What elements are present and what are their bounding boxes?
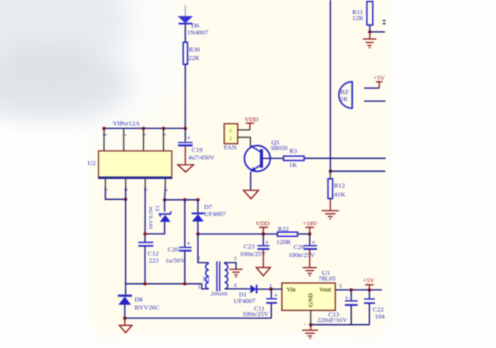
label R3 xyxy=(289,148,297,155)
svg-text:1N4007: 1N4007 xyxy=(187,30,209,37)
svg-text:1u/50V: 1u/50V xyxy=(165,258,185,265)
pin number 3 xyxy=(142,189,147,192)
ground U3 (bars) xyxy=(302,325,318,339)
junction U3 gnd node xyxy=(309,323,312,326)
value 22R xyxy=(188,55,200,62)
pin 6 stub xyxy=(143,128,145,151)
svg-text:FAN: FAN xyxy=(224,145,237,152)
wire pin2 down to D8 xyxy=(125,187,127,295)
wire transformer pin4 to D1 xyxy=(225,288,251,290)
svg-text:104: 104 xyxy=(375,313,386,320)
capacitor C11 xyxy=(266,292,278,303)
label C22 xyxy=(373,307,384,314)
svg-text:41K: 41K xyxy=(334,191,346,198)
wire C13 to gnd rail xyxy=(350,305,352,324)
value 78L05 xyxy=(319,276,337,283)
svg-text:12K: 12K xyxy=(352,15,364,22)
capacitor C19 xyxy=(178,134,193,145)
svg-text:2: 2 xyxy=(197,256,200,262)
value 100n/25V (C28) xyxy=(289,252,316,259)
svg-text:R30: R30 xyxy=(189,46,201,53)
wire faint stub above D6 xyxy=(184,5,186,16)
wire R11 node right xyxy=(370,31,385,33)
capacitor C22 xyxy=(364,299,375,303)
ground transformer pin3 (bars) xyxy=(229,269,242,277)
svg-text:D6: D6 xyxy=(191,23,200,30)
IC U2 body xyxy=(99,151,172,178)
pin 5 stub xyxy=(163,128,165,151)
capacitor C23 xyxy=(257,238,269,249)
label Q5 xyxy=(271,140,280,147)
junction pin1-pin2 xyxy=(124,198,127,201)
svg-text:VIPer12A: VIPer12A xyxy=(113,121,140,128)
svg-text:22R: 22R xyxy=(188,55,200,62)
pin number 1 xyxy=(102,189,107,192)
value 223 xyxy=(149,258,160,265)
ground R12 (bars) xyxy=(322,199,339,220)
ground C28 (bars) xyxy=(303,249,317,276)
IC U3 body xyxy=(282,283,335,310)
value 1u/50V xyxy=(165,258,185,265)
power +5V (U3) xyxy=(365,285,374,290)
svg-text:C23: C23 xyxy=(244,244,256,251)
wire C12 to bottom bus xyxy=(144,246,146,284)
svg-text:78L05: 78L05 xyxy=(319,276,337,283)
svg-text:+: + xyxy=(303,322,306,327)
label R11 xyxy=(352,9,363,16)
value 41K xyxy=(334,191,346,198)
value 18V 0.5W (rotated) xyxy=(149,206,155,230)
value UF4007 xyxy=(204,211,226,218)
label U3 xyxy=(322,270,331,277)
svg-text:+5V: +5V xyxy=(363,278,375,285)
wire U3 Vout xyxy=(335,289,382,291)
junction R12 node xyxy=(329,170,332,173)
wire pin4 to bus xyxy=(164,187,167,200)
junction pin4 node xyxy=(163,198,166,201)
pin 8 stub xyxy=(103,128,105,151)
pin number 2 FAN xyxy=(229,128,232,134)
svg-text:+: + xyxy=(187,240,191,248)
pin number 2 xyxy=(123,189,128,192)
wire D1 to U3 Vin xyxy=(257,288,282,290)
value S8050 xyxy=(271,145,289,152)
wire ground rail left xyxy=(125,317,272,319)
label Vin xyxy=(287,288,297,294)
svg-text:R22: R22 xyxy=(278,226,289,233)
svg-text:+: + xyxy=(187,134,191,142)
zener Z1 xyxy=(160,211,172,222)
value 1N4007 xyxy=(187,30,209,37)
junction C12 bottom xyxy=(143,282,146,285)
svg-text:100n/25V: 100n/25V xyxy=(240,251,267,258)
value 1K (BZ) xyxy=(340,96,348,103)
label Vout xyxy=(319,288,331,294)
power +5V (buzzer) xyxy=(376,82,383,88)
svg-text:D8: D8 xyxy=(135,297,144,304)
pin 2 stub U2 xyxy=(125,179,127,188)
wire long vertical xyxy=(329,0,331,171)
wire buzzer top pin xyxy=(364,87,379,89)
label GND (rotated) xyxy=(308,293,315,308)
pin 4 stub U2 xyxy=(164,179,166,188)
transformer L1 xyxy=(206,261,228,291)
svg-text:C12: C12 xyxy=(148,251,159,258)
ground R11 (bars) xyxy=(363,32,377,48)
resistor R12 xyxy=(328,179,333,199)
capacitor C13 xyxy=(345,294,358,305)
pin number 1 transformer xyxy=(198,285,201,291)
wire node bus y200 xyxy=(165,199,198,201)
wire R11 bottom xyxy=(369,25,371,32)
wire D6 to R30 xyxy=(184,24,186,42)
svg-text:4u7/450V: 4u7/450V xyxy=(188,154,215,161)
svg-text:Vout: Vout xyxy=(319,288,331,294)
ground D8 (triangle) xyxy=(119,318,132,333)
wire C22 to gnd rail xyxy=(368,303,370,324)
value 100n/25V (C11) xyxy=(242,311,269,318)
label Z1 (rotated) xyxy=(155,205,161,211)
capacitor C12 xyxy=(138,242,153,246)
label C23 xyxy=(244,244,256,251)
value 104 xyxy=(375,313,386,320)
svg-text:C19: C19 xyxy=(192,147,204,154)
svg-text:R3: R3 xyxy=(289,148,297,155)
svg-text:4: 4 xyxy=(234,283,237,289)
pin 1 stub FAN to Q5 collector xyxy=(238,137,251,146)
tiny mark near gnd node xyxy=(303,322,306,327)
label D6 xyxy=(191,23,200,30)
capacitor C28 xyxy=(304,238,317,249)
power +18V xyxy=(305,227,314,234)
pin 2 stub FAN xyxy=(238,129,250,131)
wire Q5 emitter down xyxy=(250,172,252,190)
label R22 xyxy=(278,226,289,233)
junction pin3-zener xyxy=(143,232,146,235)
label C19 xyxy=(192,147,204,154)
junction U2 pin6 xyxy=(142,127,145,130)
junction U2 pin5 xyxy=(162,127,165,130)
diode D1 xyxy=(250,285,256,294)
junction R11 node xyxy=(368,30,371,33)
wire pin1 to pin2 join xyxy=(105,187,125,199)
svg-text:100n/25V: 100n/25V xyxy=(289,252,316,259)
junction U2 pin8 xyxy=(102,127,105,130)
wire D7 stem xyxy=(197,200,199,213)
pin number 1 FAN xyxy=(229,136,232,142)
wire C11 stem xyxy=(270,289,272,298)
label C12 xyxy=(148,251,159,258)
wire D7 node down to transformer pin2 xyxy=(198,234,209,263)
wire gnd rail right xyxy=(311,324,370,326)
svg-text:BYV26C: BYV26C xyxy=(135,304,161,311)
value 220uF/16V xyxy=(317,317,347,324)
svg-text:GND: GND xyxy=(308,293,315,308)
junction VDD tap xyxy=(262,232,265,235)
svg-text:1: 1 xyxy=(198,285,201,291)
svg-text:VDD: VDD xyxy=(245,116,259,123)
wire zener top xyxy=(164,200,166,212)
svg-text:3: 3 xyxy=(234,256,237,262)
svg-text:R12: R12 xyxy=(334,183,345,190)
ground C19 (triangle) xyxy=(178,146,194,172)
power VDD (mid) xyxy=(259,227,268,234)
value 200x66 xyxy=(211,292,228,298)
value 12K xyxy=(352,15,364,22)
junction C22 tap xyxy=(368,288,371,291)
buzzer BZ xyxy=(339,82,352,109)
node stub marks (cut component) xyxy=(383,20,386,25)
wire zener bottom xyxy=(145,222,165,234)
wire Q5 base to R3 xyxy=(263,157,284,159)
pin number 6 xyxy=(141,134,146,137)
label C13 xyxy=(328,311,340,318)
junction C20 tap xyxy=(183,198,186,201)
wire pin3 down xyxy=(144,187,146,242)
svg-text:Z1: Z1 xyxy=(155,205,161,211)
pin number 1 U3 xyxy=(269,283,272,289)
wire R12 top stub xyxy=(329,171,331,179)
wire transformer pin3 xyxy=(225,263,236,269)
svg-text:2: 2 xyxy=(229,128,232,134)
pin number 4 transformer xyxy=(234,283,237,289)
pin 2 stub U3 gnd xyxy=(310,310,312,324)
value 4u7/450V xyxy=(188,154,215,161)
label D1 xyxy=(239,292,247,299)
junction C19 tap xyxy=(184,127,187,130)
pin 1 stub U2 xyxy=(104,179,106,188)
pin 3 stub U2 xyxy=(144,179,146,188)
pin number 4 xyxy=(162,189,167,192)
svg-text:18V 0.5W: 18V 0.5W xyxy=(149,206,155,230)
wire R22 to +18V node xyxy=(298,233,310,235)
wire C13 stem xyxy=(350,290,352,301)
pin number 7 xyxy=(121,134,126,137)
svg-text:1: 1 xyxy=(269,283,272,289)
ground Q5 (triangle) xyxy=(244,190,259,199)
wire C28 stem xyxy=(309,234,311,245)
net label +5V (buzzer) xyxy=(373,75,385,82)
label VIPer12A xyxy=(113,121,140,128)
ground C23 (triangle) xyxy=(256,249,270,275)
value 120R xyxy=(276,239,291,246)
label D8 xyxy=(135,297,144,304)
junction C11 tap xyxy=(269,287,272,290)
pin number 3 transformer xyxy=(234,256,237,262)
junction D7 top xyxy=(196,198,199,201)
pin 7 stub xyxy=(123,128,125,151)
svg-text:UF4007: UF4007 xyxy=(234,298,256,305)
svg-text:L1: L1 xyxy=(203,276,210,283)
label D7 xyxy=(204,204,213,211)
wire VDD rail y234 xyxy=(198,233,277,235)
resistor R30 xyxy=(183,42,187,64)
svg-text:+18V: +18V xyxy=(303,221,318,228)
net label +18V xyxy=(303,221,318,228)
label U2 xyxy=(88,160,96,167)
label L1 xyxy=(203,276,210,283)
label FAN xyxy=(224,145,237,152)
wire C11 to rail xyxy=(270,303,272,318)
svg-text:S8050: S8050 xyxy=(271,145,289,152)
transistor Q5 xyxy=(244,146,270,172)
svg-text:1: 1 xyxy=(229,136,232,142)
label BZ xyxy=(340,89,348,96)
resistor R22 xyxy=(277,232,297,236)
svg-text:120R: 120R xyxy=(276,239,291,246)
pin number 5 xyxy=(161,134,166,137)
junction D7 anode node xyxy=(196,232,199,235)
wire C23 stem xyxy=(262,234,264,245)
label C20 xyxy=(168,247,180,254)
diode D6 xyxy=(178,16,193,24)
wire R30 to VIPer bus xyxy=(184,64,186,128)
resistor R3 xyxy=(284,156,305,160)
svg-text:1K: 1K xyxy=(289,162,297,169)
net label VDD (mid) xyxy=(256,221,270,228)
svg-text:UF4007: UF4007 xyxy=(204,211,226,218)
diode D7 xyxy=(192,213,205,221)
pin number 3 U3 xyxy=(339,284,342,290)
wire R12 node right xyxy=(330,170,385,172)
wire C22 stem xyxy=(368,290,370,299)
wire C20 stem xyxy=(184,200,186,247)
wire D8 to rail xyxy=(124,305,126,318)
net label +5V (U3) xyxy=(363,278,375,285)
wire buzzer bottom pin xyxy=(364,100,385,102)
resistor R11 xyxy=(367,2,373,26)
svg-text:1K: 1K xyxy=(340,96,348,103)
label C11 xyxy=(254,305,265,312)
junction C13 tap xyxy=(350,288,353,291)
junction C20 bottom xyxy=(183,282,186,285)
power VDD (FAN) xyxy=(246,123,254,130)
junction +18V node xyxy=(308,232,311,235)
diode D8 xyxy=(118,296,132,305)
wire R3 to right edge xyxy=(304,157,386,159)
svg-text:U2: U2 xyxy=(88,160,96,167)
label R30 xyxy=(189,46,201,53)
label R12 xyxy=(334,183,345,190)
wire C19 stem xyxy=(184,128,186,142)
svg-text:100n/25V: 100n/25V xyxy=(242,311,269,318)
connector FAN xyxy=(224,124,238,144)
wire U2 top pin bus xyxy=(104,127,185,129)
svg-text:+5V: +5V xyxy=(373,75,385,82)
capacitor C20 xyxy=(179,240,192,251)
svg-text:220uF/16V: 220uF/16V xyxy=(317,317,347,324)
pin number 2 transformer xyxy=(197,256,200,262)
wire D7 to node xyxy=(197,222,199,234)
svg-text:C20: C20 xyxy=(168,247,180,254)
label C28 xyxy=(294,244,306,251)
net label VDD (FAN) xyxy=(245,116,259,123)
junction D8 rail xyxy=(123,316,126,319)
wire C20 to bottom bus xyxy=(184,251,186,284)
svg-text:3: 3 xyxy=(339,284,342,290)
svg-text:Vin: Vin xyxy=(287,288,297,294)
value 100n/25V (C23) xyxy=(240,251,267,258)
value 1K (R3) xyxy=(289,162,297,169)
bottom bus wire xyxy=(125,284,209,289)
svg-text:VDD: VDD xyxy=(256,221,270,228)
svg-text:C28: C28 xyxy=(294,244,306,251)
pin number 8 xyxy=(101,134,106,137)
svg-text:BZ: BZ xyxy=(340,89,348,96)
svg-text:200x66: 200x66 xyxy=(211,292,228,298)
value BYV26C xyxy=(135,304,161,311)
svg-text:223: 223 xyxy=(149,258,160,265)
value UF4007 (D1) xyxy=(234,298,256,305)
